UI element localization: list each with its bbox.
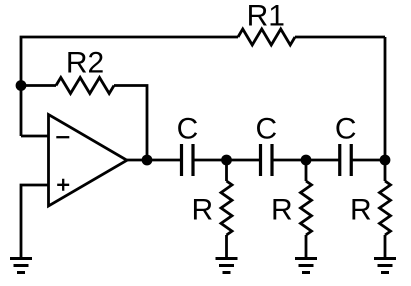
wire C1 to node C1j bbox=[193, 159, 227, 162]
wire node C1j down to R (first) bbox=[225, 160, 228, 181]
wire R2 left lead from node A bbox=[21, 84, 56, 87]
ground (first ladder) bbox=[216, 259, 238, 273]
wire R (first) to ground bbox=[225, 235, 228, 259]
wire R2 right lead down to output node B bbox=[114, 86, 147, 161]
capacitor C3 bbox=[340, 144, 352, 176]
wire inverting input stub bbox=[21, 135, 49, 138]
capacitor C2 bbox=[261, 144, 273, 176]
wire non-inverting input to ground bbox=[21, 185, 49, 259]
resistor R2 bbox=[56, 78, 114, 94]
wire op-amp output to C1 bbox=[127, 159, 182, 162]
op-amp plus sign bbox=[57, 179, 69, 191]
wire C2 to node C2j bbox=[272, 159, 306, 162]
resistor R (first ladder) bbox=[221, 181, 232, 235]
svg-text:C: C bbox=[177, 113, 199, 146]
wire R (second) to ground bbox=[305, 235, 308, 259]
wire top rail right segment bbox=[295, 36, 385, 39]
svg-text:C: C bbox=[255, 113, 277, 146]
resistor R (second ladder) bbox=[301, 181, 312, 235]
capacitor C1 bbox=[182, 144, 194, 176]
wire node D down to R (third) bbox=[384, 160, 387, 181]
svg-text:R: R bbox=[350, 194, 372, 227]
resistor R (third ladder) bbox=[380, 181, 391, 235]
wire node C2j to C3 bbox=[306, 159, 340, 162]
wire C3 to node D bbox=[351, 159, 385, 162]
svg-text:R2: R2 bbox=[66, 47, 104, 80]
wire top rail left segment bbox=[21, 37, 238, 136]
resistor R1 bbox=[238, 29, 295, 45]
svg-text:R: R bbox=[191, 194, 213, 227]
wire R (third) to ground bbox=[384, 235, 387, 259]
node D bbox=[380, 155, 391, 166]
wire right rail down to node D bbox=[384, 37, 387, 160]
svg-text:R1: R1 bbox=[247, 0, 285, 33]
svg-text:C: C bbox=[335, 113, 357, 146]
svg-text:R: R bbox=[271, 194, 293, 227]
op-amp minus sign bbox=[56, 136, 69, 138]
wire node C2j down to R (second) bbox=[305, 160, 308, 181]
ground (second ladder) bbox=[295, 259, 317, 273]
node C2j bbox=[301, 155, 312, 166]
ground (left) bbox=[10, 259, 32, 273]
op-amp U1 bbox=[49, 115, 128, 207]
node B (output junction) bbox=[142, 155, 153, 166]
ground (third ladder) bbox=[374, 259, 396, 273]
node A (feedback tap) bbox=[16, 80, 27, 91]
wire node C1j to C2 bbox=[227, 159, 261, 162]
node C1j bbox=[221, 155, 232, 166]
